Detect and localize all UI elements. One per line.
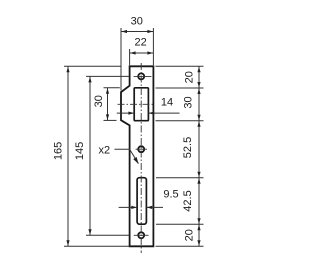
ext line left hole-top y=76.4 [86,75,129,77]
deadbolt slot [137,178,146,225]
ext line left cutout-bottom y=120.4 [104,119,117,121]
ext line right cutout-bottom y=120.7 [156,120,204,122]
svg-text:22: 22 [134,37,146,49]
ext line right slot-bottom y=224.2 [156,223,204,225]
svg-text:42.5: 42.5 [182,190,194,211]
arrows 165 [66,67,69,73]
svg-text:145: 145 [74,142,86,160]
arrows right column 20 bottom [197,225,200,231]
arrows 22 top [130,51,136,54]
arrows right column 42.5 [197,178,200,184]
ext line top lip x=121 [120,28,122,91]
dim line 9.5 [119,206,163,208]
vertical centerline [140,63,142,253]
hole top [138,73,144,79]
dim line 145 [89,76,91,235]
dim line 22 top [130,52,154,54]
dim line 30 top [121,31,153,33]
svg-text:9.5: 9.5 [163,188,178,200]
svg-text:20: 20 [184,229,196,241]
ext line right plate-top y=66.3 [156,65,204,67]
hole bottom cross line [134,234,149,236]
arrows right column 52.5 [197,121,200,127]
ext line top plate-left x=129.6 [129,49,131,65]
arrows right column 20 [197,67,200,73]
ext line right slot-top y=177.7 [156,177,204,179]
ext line top plate-right x=153.4 [152,28,154,65]
svg-text:30: 30 [131,16,143,28]
hole bottom [138,232,144,238]
arrows 30 left [106,88,109,94]
svg-text:165: 165 [52,142,64,160]
svg-text:52.5: 52.5 [182,137,194,158]
hole top cross line [134,75,152,77]
ext line right cutout-top y=88 [156,87,204,89]
arrows 145 [88,77,91,83]
latch centerline horizontal [118,103,153,105]
svg-text:20: 20 [184,71,196,83]
arrows 9.5 [131,206,137,209]
ext line left plate-bottom y=246.3 [64,245,130,247]
ext line left plate-top y=66.3 [64,65,121,67]
dim line right column [198,66,200,246]
svg-text:30: 30 [93,95,105,107]
hole middle [138,146,144,152]
leader x2 [115,149,139,163]
arrows 14 [128,112,134,115]
hole middle cross line [136,148,147,150]
ext line right plate-bottom y=246.3 [156,245,204,247]
dim line 30 left [107,88,109,121]
arrow leader x2 [133,157,138,164]
dim line 14 [117,112,180,114]
dim line 165 [67,66,69,246]
svg-text:14: 14 [161,96,173,108]
ext line left hole-bottom y=235.3 [86,234,129,236]
plate outline [121,66,153,246]
arrows right column 30 [197,88,200,94]
svg-text:x2: x2 [98,144,110,156]
latch cutout [134,88,148,121]
svg-text:30: 30 [183,96,195,108]
ext line left cutout-top y=87.8 [104,87,120,89]
arrows 30 top [121,30,127,33]
